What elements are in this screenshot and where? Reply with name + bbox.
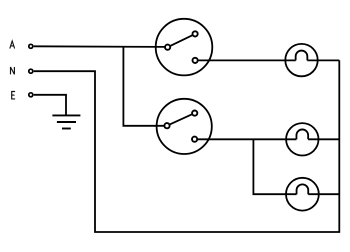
terminal A	[29, 44, 33, 48]
ground	[52, 115, 80, 128]
lamp L2	[286, 123, 318, 155]
lamp L3	[286, 178, 319, 211]
lever	[167, 113, 195, 126]
terminal E label	[12, 92, 15, 99]
wire L1 to N bus	[307, 59, 339, 61]
wire A to switch SW1	[34, 45, 165, 48]
wire L2 to N bus	[308, 138, 339, 140]
switch SW1	[156, 19, 213, 76]
wire E to ground	[34, 95, 66, 116]
pin top	[193, 31, 198, 36]
wire junction A to switch SW2	[123, 46, 164, 125]
terminal E	[29, 93, 33, 97]
wire SW1 to lamp L1	[198, 59, 296, 61]
lamp L1	[285, 44, 317, 76]
pin left	[164, 123, 169, 128]
wire branch junction to lamp L3	[253, 139, 296, 194]
switch SW2	[157, 99, 212, 154]
pin left	[165, 45, 170, 50]
lever	[168, 34, 196, 47]
wire L3 to N bus	[308, 193, 339, 195]
terminal N	[29, 69, 33, 73]
pin output	[193, 58, 198, 63]
pin output	[192, 137, 197, 142]
wire N bus (neutral return)	[34, 60, 340, 232]
terminal N label	[11, 67, 15, 74]
terminal A label	[10, 41, 15, 49]
pin top	[192, 111, 197, 116]
wire SW2 to lamp L2	[197, 138, 296, 140]
